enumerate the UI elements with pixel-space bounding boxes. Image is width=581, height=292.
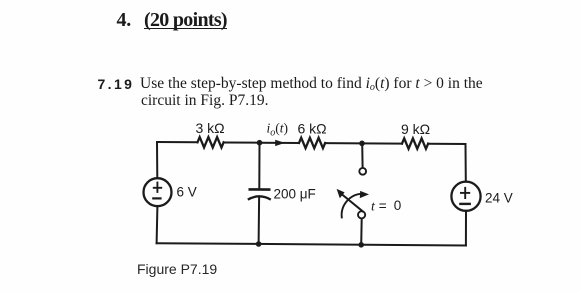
svg-text:Figure P7.19: Figure P7.19 — [137, 261, 217, 277]
wire top between node A and 6k — [260, 142, 300, 144]
source V1 6V circle — [144, 178, 172, 206]
svg-text:=: = — [379, 198, 387, 213]
problem text line 2 — [141, 92, 268, 110]
resistor 6 kOhm — [299, 138, 325, 148]
source V1 minus sign — [152, 197, 161, 199]
node A dot — [257, 140, 263, 146]
heading 4. (20 points) — [117, 9, 132, 32]
capacitor C 200uF bottom curved plate — [248, 196, 271, 199]
heading (20 points) underlined — [144, 9, 227, 29]
svg-text:200 μF: 200 μF — [274, 187, 316, 202]
wire left branch upper — [156, 142, 158, 178]
wire top-left segment — [157, 141, 198, 143]
wire right branch lower — [465, 211, 467, 246]
switch motion arc — [342, 194, 363, 219]
resistor 3 kOhm — [198, 137, 224, 147]
wire middle branch lower (capacitor to bottom) — [258, 199, 261, 245]
wire switch branch lower — [360, 218, 363, 244]
svg-text:24 V: 24 V — [485, 191, 513, 206]
switch blade — [342, 194, 364, 212]
wire top-right segment — [428, 143, 465, 145]
resistor 9 kOhm — [402, 138, 428, 148]
node B bottom dot — [358, 242, 364, 248]
switch motion arc arrowhead — [360, 191, 369, 198]
svg-text:6 kΩ: 6 kΩ — [298, 121, 327, 137]
wire top between 3k and node A — [224, 141, 260, 143]
wire top between 6k and node B — [325, 142, 362, 144]
switch lower contact — [358, 211, 365, 218]
capacitor C 200uF top plate — [249, 188, 271, 191]
source V2 24V circle — [451, 182, 480, 211]
svg-text:t: t — [371, 200, 376, 215]
node A bottom dot — [256, 241, 262, 247]
svg-text:io(t): io(t) — [267, 121, 289, 139]
node B dot — [359, 141, 365, 147]
source V1 plus sign — [153, 182, 162, 193]
svg-text:3 kΩ: 3 kΩ — [196, 120, 225, 136]
wire bottom — [157, 243, 466, 245]
problem number 7.19 — [98, 76, 135, 92]
wire middle branch upper (node A to capacitor) — [258, 143, 260, 189]
switch upper contact — [359, 168, 366, 175]
svg-text:6 V: 6 V — [177, 185, 197, 200]
wire top between node B and 9k — [362, 142, 402, 144]
wire switch branch upper (node B to contact) — [361, 143, 363, 167]
wire right branch upper — [465, 144, 467, 182]
wire left branch lower — [156, 206, 159, 243]
svg-text:0: 0 — [394, 198, 402, 213]
problem text line 1 — [140, 75, 483, 93]
source V2 minus sign — [459, 203, 471, 205]
switch blade arrowhead — [337, 189, 345, 198]
source V2 plus sign — [460, 187, 470, 199]
current io arrowhead — [275, 140, 285, 146]
svg-text:9 kΩ: 9 kΩ — [401, 121, 430, 137]
